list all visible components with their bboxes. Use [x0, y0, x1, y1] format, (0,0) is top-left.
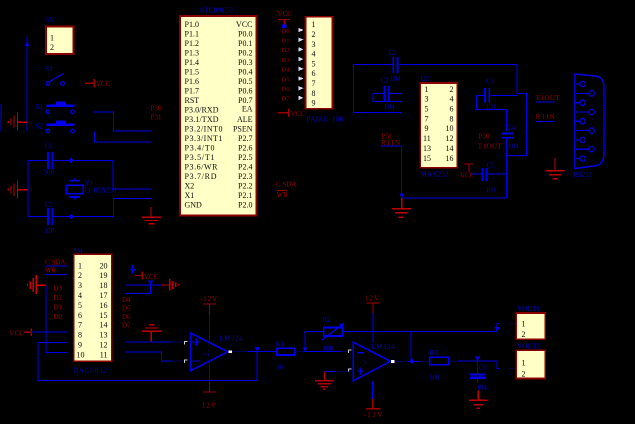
svg-text:VCC: VCC: [291, 110, 306, 118]
connector J5V (2-pin header): [46, 27, 74, 55]
DAC pin numbers right: [100, 261, 108, 359]
DB9 pin 2: [575, 100, 585, 105]
svg-text:104: 104: [508, 143, 519, 151]
wire T1OUT loop right of MAX: [507, 65, 527, 156]
wire stub T1OUT: [536, 101, 554, 103]
svg-text:R1IN: R1IN: [536, 113, 555, 121]
junction arrow (feedback tap): [255, 347, 260, 352]
svg-text:P2.6: P2.6: [238, 144, 252, 153]
svg-text:13: 13: [100, 331, 108, 340]
DB9 pin 7: [575, 109, 594, 114]
wire left vertical (crystal net): [27, 160, 29, 216]
svg-text:10: 10: [446, 124, 454, 133]
svg-text:D7: D7: [282, 96, 291, 103]
svg-text:C1: C1: [381, 77, 390, 85]
wire R2 left lead: [305, 331, 324, 333]
svg-text:P2.0: P2.0: [238, 201, 252, 210]
svg-text:R3: R3: [430, 349, 439, 357]
svg-text:C7: C7: [45, 201, 54, 209]
wire from header pin down left side: [26, 37, 28, 132]
svg-text:9: 9: [425, 124, 429, 133]
svg-text:EA: EA: [242, 105, 253, 114]
DB9 pin 1: [575, 81, 585, 86]
potentiometer R2 body: [324, 328, 343, 337]
svg-text:P1.2: P1.2: [185, 39, 199, 48]
svg-text:4: 4: [450, 95, 454, 104]
svg-text:X2: X2: [185, 182, 195, 191]
R3 left stub (dark): [420, 360, 430, 362]
svg-text:VOUT1: VOUT1: [517, 305, 541, 313]
connector VOUT1 body: [516, 313, 545, 339]
power 12V (opamp1 V+): [203, 382, 216, 392]
svg-text:13: 13: [423, 144, 431, 153]
svg-text:D1: D1: [282, 38, 290, 45]
svg-text:S2: S2: [36, 122, 44, 130]
wire feedback to DAC pin9: [38, 343, 257, 381]
svg-text:DAC0832: DAC0832: [73, 367, 108, 375]
svg-text:2: 2: [522, 330, 526, 339]
opamp1 output dot: [228, 350, 232, 353]
power VCC (MAX232 pin16): [464, 164, 474, 172]
svg-text:14: 14: [446, 144, 454, 153]
wire DAC pin18 row tie: [126, 285, 151, 294]
svg-text:15: 15: [423, 154, 431, 163]
svg-text:6: 6: [312, 69, 316, 78]
svg-text:D2: D2: [54, 294, 63, 302]
svg-text:VCC: VCC: [96, 80, 111, 88]
wire R2 tap vertical: [304, 332, 306, 352]
resistor R1 body: [277, 348, 295, 355]
wire C6 tap vertical: [476, 361, 478, 373]
IC U4 DAC0832 body: [74, 254, 112, 361]
svg-text:C3: C3: [486, 78, 495, 86]
svg-text:16: 16: [100, 301, 108, 310]
svg-text:8: 8: [312, 89, 316, 98]
svg-text:D3: D3: [54, 285, 63, 293]
wire S2 to P3.3: [94, 132, 152, 143]
svg-text:VCC: VCC: [144, 273, 159, 281]
capacitor C7 (30P): [28, 208, 114, 225]
svg-text:12: 12: [100, 341, 108, 350]
svg-text:3: 3: [78, 281, 82, 290]
svg-text:P1.6: P1.6: [185, 77, 199, 86]
wire DAC pin10 stub: [46, 352, 67, 354]
power VCC (resistor network bottom): [278, 108, 289, 117]
svg-text:-12V: -12V: [200, 295, 217, 303]
MCU right pin names: [233, 20, 253, 210]
IC U2 MAX232 body: [420, 83, 457, 168]
wire C4 bus vertical: [506, 110, 508, 131]
wire opamp2 out to R3: [409, 360, 421, 362]
svg-text:P3.2/INT0: P3.2/INT0: [185, 125, 223, 134]
svg-text:D4: D4: [282, 67, 291, 74]
svg-text:17: 17: [100, 291, 108, 300]
opamp1 bottom power pin: [209, 362, 211, 382]
svg-text:P3.6/WR: P3.6/WR: [185, 163, 219, 172]
svg-text:RS232: RS232: [573, 171, 593, 179]
svg-text:PAIZU-10K: PAIZU-10K: [307, 116, 345, 124]
wire feedback from R2 line: [410, 332, 412, 362]
svg-text:C SDA: C SDA: [45, 258, 65, 266]
ground (chip GND): [142, 207, 161, 224]
pushbutton S2: [46, 121, 75, 133]
svg-text:1: 1: [312, 20, 316, 29]
svg-text:1: 1: [425, 85, 429, 94]
wire DAC pin19 row: [126, 284, 161, 286]
resistor network pin arrows: [299, 28, 304, 100]
svg-text:10: 10: [77, 350, 85, 359]
svg-text:2: 2: [78, 271, 82, 280]
svg-text:VOUT2: VOUT2: [517, 342, 541, 350]
wire S1 to P3.2 (stepped): [94, 112, 152, 131]
wire arrow marker up: [25, 41, 30, 46]
svg-text:P1.1: P1.1: [185, 30, 199, 39]
svg-text:C6: C6: [45, 143, 54, 151]
svg-text:C SDA: C SDA: [276, 181, 296, 189]
wire crystal to X2: [113, 160, 151, 189]
svg-text:104: 104: [384, 103, 395, 111]
svg-text:D3: D3: [282, 57, 290, 64]
wire B: DAC pin11 to opamp1 -: [126, 352, 171, 361]
opamp1 input stub marks: [184, 341, 187, 363]
DB9 pin 4: [575, 137, 585, 142]
connector J RS232 (DB9 shell): [575, 74, 604, 169]
svg-text:P3.3/INT1: P3.3/INT1: [185, 134, 223, 143]
svg-text:D5: D5: [282, 76, 290, 83]
svg-text:P3.5/T1: P3.5/T1: [185, 153, 215, 162]
svg-text:P3.1/TXD: P3.1/TXD: [185, 115, 219, 124]
wire A: DAC pin12 to opamp1 +: [126, 341, 171, 343]
capacitor C3 (104): [477, 88, 518, 103]
svg-text:D1: D1: [54, 304, 63, 312]
ground (right-pointing, DAC pin19 net): [161, 279, 179, 290]
wire clipped at sheet edge: [0, 104, 2, 132]
opamp U3B triangle: [353, 342, 390, 381]
svg-text:S3: S3: [45, 65, 53, 73]
wire R1 to opamp2 minus: [304, 351, 341, 353]
svg-text:1K: 1K: [276, 363, 285, 371]
DB9 pin 9: [575, 147, 594, 152]
capacitor C2 (104): [354, 57, 518, 73]
svg-text:20: 20: [100, 261, 108, 270]
svg-text:D6: D6: [282, 86, 291, 93]
opamp U3A triangle: [191, 333, 228, 371]
capacitor C5 (104): [471, 168, 506, 181]
svg-text:VCC: VCC: [278, 10, 293, 18]
junction arrow: [148, 280, 153, 285]
svg-text:1: 1: [522, 358, 526, 367]
svg-text:P30: P30: [151, 104, 163, 112]
svg-text:7: 7: [425, 114, 429, 123]
connector VOUT2 body: [516, 350, 545, 378]
svg-text:C2: C2: [389, 49, 398, 57]
wire DAC left vertical: [45, 285, 47, 352]
junction arrow: [399, 193, 404, 198]
junction dot at RP pin1: [282, 25, 287, 29]
svg-text:12V: 12V: [365, 295, 379, 303]
opamp1 minus sign: [193, 360, 200, 362]
svg-text:D0: D0: [282, 28, 290, 35]
ground (crystal, left): [8, 181, 28, 199]
wire crystal to X1: [114, 199, 152, 217]
capacitor C4 (104): [501, 134, 513, 198]
DB9 pin 3: [575, 119, 585, 124]
wire corner into VOUT2: [497, 361, 499, 369]
svg-text:2: 2: [50, 43, 54, 52]
svg-text:LM324: LM324: [219, 335, 243, 343]
svg-text:P0.0: P0.0: [238, 30, 252, 39]
svg-text:P3.7/RD: P3.7/RD: [185, 172, 217, 181]
svg-text:3: 3: [363, 359, 367, 367]
svg-text:VCC: VCC: [460, 171, 475, 179]
MCU STC89C52 body: [180, 16, 256, 216]
R1 right stub (dark): [295, 351, 304, 353]
svg-text:MAX232: MAX232: [421, 171, 450, 179]
opamp2 output pin (dark): [395, 360, 409, 362]
svg-text:WR: WR: [277, 191, 289, 199]
svg-text:T1OUT: T1OUT: [536, 94, 561, 102]
svg-text:16: 16: [446, 154, 454, 163]
switch S3: [46, 74, 64, 86]
svg-text:P0.1: P0.1: [238, 39, 252, 48]
svg-text:R2: R2: [323, 316, 332, 324]
svg-text:VCC: VCC: [236, 20, 252, 29]
svg-text:7: 7: [312, 79, 316, 88]
capacitor C1 (104): [373, 86, 402, 101]
junction arrow crystal bottom: [70, 214, 75, 219]
svg-text:104: 104: [486, 186, 497, 194]
svg-text:5: 5: [425, 105, 429, 114]
svg-text:11: 11: [423, 134, 431, 143]
svg-text:P0.2: P0.2: [238, 49, 252, 58]
VOUT1 pin stub (dark): [509, 322, 516, 324]
capacitor C6 (30P): [28, 152, 113, 169]
svg-text:1: 1: [50, 33, 54, 42]
svg-text:P31: P31: [151, 114, 163, 122]
svg-text:P3.0/RXD: P3.0/RXD: [185, 106, 219, 115]
opamp2 top power pin: [372, 313, 374, 343]
svg-text:18: 18: [100, 281, 108, 290]
svg-text:ALE: ALE: [237, 115, 253, 124]
svg-text:P30: P30: [479, 132, 491, 140]
R3 right stub (dark): [449, 360, 458, 362]
svg-text:100: 100: [429, 373, 440, 381]
svg-text:P1.3: P1.3: [185, 49, 199, 58]
opamp1 plus sign: [193, 339, 200, 346]
ground (DAC left): [28, 275, 47, 294]
capacitor C6 output (104): [470, 374, 486, 382]
svg-text:4: 4: [312, 50, 316, 59]
svg-text:P1.4: P1.4: [185, 58, 199, 67]
svg-text:1: 1: [522, 319, 526, 328]
ground (below MAX232): [392, 198, 411, 217]
DB9 pin 8: [575, 128, 594, 133]
wire DAC pin1 stub: [46, 265, 67, 267]
svg-text:5: 5: [78, 301, 82, 310]
svg-text:6: 6: [78, 311, 82, 320]
MAX232 pin numbers left: [423, 85, 431, 163]
svg-text:8: 8: [78, 331, 82, 340]
svg-text:30P: 30P: [44, 227, 55, 235]
svg-text:15: 15: [100, 311, 108, 320]
wire DAC pin2 stub: [46, 274, 67, 276]
svg-text:P0.6: P0.6: [238, 87, 252, 96]
svg-text:T1OUT: T1OUT: [478, 143, 503, 151]
svg-text:STC89C52: STC89C52: [200, 7, 235, 15]
svg-text:5V: 5V: [46, 16, 55, 24]
MCU left pin names: [185, 20, 223, 210]
svg-text:9: 9: [78, 341, 82, 350]
svg-text:VCC: VCC: [10, 329, 25, 337]
svg-text:PSEN: PSEN: [233, 125, 253, 134]
opamp2 minus sign: [357, 352, 364, 354]
wire MAX pin11 (R1IN): [381, 146, 402, 198]
wire VCC to DAC pin8: [31, 331, 67, 333]
svg-text:RST: RST: [185, 96, 200, 105]
svg-text:10K: 10K: [323, 344, 335, 352]
svg-text:12: 12: [446, 134, 454, 143]
svg-text:P0.4: P0.4: [238, 68, 252, 77]
svg-text:3: 3: [312, 40, 316, 49]
wire C3 left to bus: [477, 95, 507, 109]
wire R2 right to VOUT1: [342, 331, 497, 333]
DAC pin numbers left: [77, 261, 85, 359]
svg-text:2: 2: [312, 30, 316, 39]
svg-text:P0.3: P0.3: [238, 58, 252, 67]
svg-text:P2.2: P2.2: [238, 182, 252, 191]
svg-text:2: 2: [203, 352, 211, 356]
svg-text:14: 14: [100, 321, 108, 330]
opamp1 output pin (dark): [232, 351, 248, 353]
svg-text:11: 11: [100, 350, 108, 359]
svg-text:U2: U2: [421, 75, 430, 83]
resistor network RP body: [306, 17, 333, 109]
ground (near DB9): [546, 158, 565, 179]
svg-text:5: 5: [312, 59, 316, 68]
svg-text:C4: C4: [507, 124, 516, 132]
svg-text:9: 9: [312, 99, 316, 108]
MAX232 pin numbers right: [446, 85, 454, 163]
ground (opamp2 plus): [315, 372, 334, 390]
svg-text:30P: 30P: [44, 169, 55, 177]
wire DAC pin20 to VCC: [132, 265, 134, 273]
svg-text:P2.5: P2.5: [238, 153, 252, 162]
crystal Y1: [66, 178, 83, 199]
R2 wiper arrow: [322, 325, 343, 341]
opamp2 bottom power pin: [372, 381, 374, 399]
svg-text:X1: X1: [185, 191, 195, 200]
DB9 pin 5: [575, 156, 585, 161]
svg-text:2: 2: [522, 369, 526, 378]
svg-text:6: 6: [450, 105, 454, 114]
power VCC (DAC pin19/20): [135, 272, 143, 280]
opamp2 output dot: [391, 360, 395, 363]
svg-text:7: 7: [78, 321, 82, 330]
wire opamp2 plus input: [325, 371, 336, 373]
power -12V (opamp2 V-): [366, 399, 380, 409]
svg-text:P0.5: P0.5: [238, 77, 252, 86]
svg-text:P2.4: P2.4: [238, 163, 252, 172]
svg-text:LM324: LM324: [371, 343, 395, 351]
svg-text:12V: 12V: [202, 402, 216, 410]
ground (inverted, above wire A): [142, 325, 162, 342]
svg-text:S1: S1: [36, 103, 44, 111]
svg-text:P3.4/T0: P3.4/T0: [185, 144, 215, 153]
svg-text:1: 1: [78, 261, 82, 270]
svg-text:11.0592M: 11.0592M: [84, 187, 118, 195]
svg-text:3: 3: [425, 95, 429, 104]
svg-text:D6: D6: [122, 313, 131, 321]
VOUT2 pin stub (dark): [509, 368, 516, 370]
wire opamp1 out to R1: [248, 351, 276, 353]
junction arrow crystal top: [70, 158, 75, 163]
net labels D0-D7 (left of resistor network): [282, 28, 291, 103]
svg-text:P2.1: P2.1: [238, 191, 252, 200]
wire feedback vertical: [256, 352, 258, 381]
wire MAX gnd row to right: [402, 197, 507, 199]
opamp1 top power pin: [209, 315, 211, 342]
junction arrow (output): [409, 359, 414, 364]
svg-text:C6: C6: [479, 363, 488, 371]
resistor R3 body: [430, 357, 449, 364]
svg-text:C5: C5: [487, 161, 496, 169]
svg-text:19: 19: [100, 271, 108, 280]
opamp2 input stub marks: [348, 350, 351, 372]
svg-text:R1: R1: [276, 341, 285, 349]
svg-text:GND: GND: [185, 201, 203, 210]
svg-text:P1.0: P1.0: [185, 20, 199, 29]
opamp2 plus sign: [357, 368, 364, 375]
junction arrow (R2 tap): [303, 348, 307, 352]
DB9 pin 6: [575, 91, 594, 96]
resistor network pin numbers: [312, 20, 316, 107]
svg-text:P1.5: P1.5: [185, 68, 199, 77]
power VCC (at S3): [85, 79, 95, 88]
svg-text:D2: D2: [282, 47, 290, 54]
ground (left of S1/S2): [8, 113, 27, 131]
wire C2 left to MAX pin5: [354, 65, 402, 113]
pushbutton S1: [46, 101, 75, 113]
wire corner into VOUT1: [497, 323, 499, 331]
ground (below C6): [469, 390, 487, 408]
junction arrow (C6 tap): [475, 357, 480, 362]
wire R3 to VOUT2: [458, 360, 497, 362]
wire C1 left to MAX pin3: [373, 93, 402, 101]
svg-text:WR: WR: [45, 267, 57, 275]
svg-text:D4: D4: [122, 296, 131, 304]
svg-text:4: 4: [78, 291, 82, 300]
svg-text:2: 2: [450, 85, 454, 94]
svg-text:D5: D5: [122, 305, 131, 313]
svg-text:D7: D7: [122, 321, 131, 329]
wire stub R1IN: [536, 120, 554, 122]
svg-text:P2.7: P2.7: [238, 134, 252, 143]
svg-text:D0: D0: [54, 313, 63, 321]
svg-text:8: 8: [450, 114, 454, 123]
svg-text:104: 104: [390, 75, 401, 83]
svg-text:P2.3: P2.3: [238, 172, 252, 181]
svg-text:P1.7: P1.7: [185, 87, 199, 96]
